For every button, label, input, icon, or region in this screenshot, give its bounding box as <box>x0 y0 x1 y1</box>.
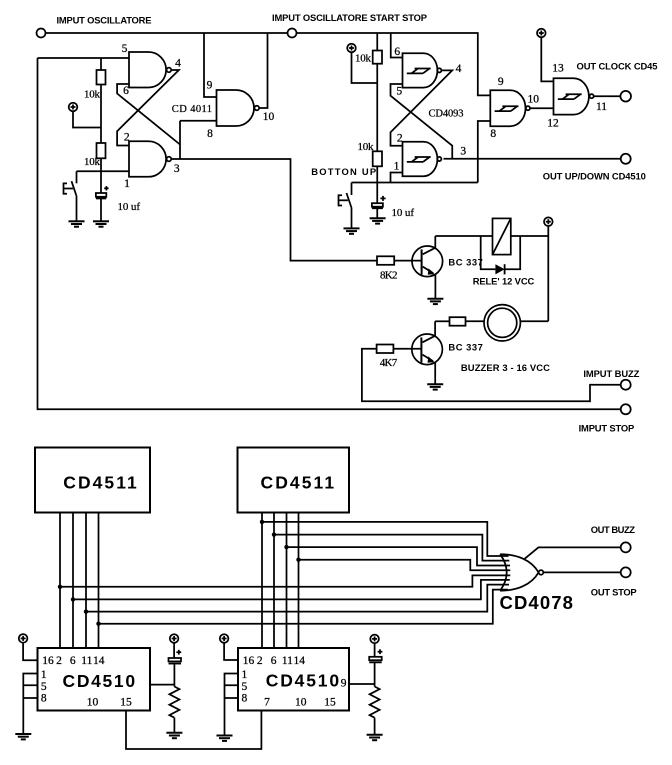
wire SW2 drop <box>351 183 353 196</box>
power +V P6 <box>170 634 179 643</box>
IC box U4 CD4511 <box>238 448 350 513</box>
diode D1 <box>495 264 504 274</box>
wire tap to OUT BUZZ <box>525 547 621 558</box>
svg-text:1: 1 <box>41 669 47 681</box>
wire P2 to RC node <box>352 52 378 83</box>
svg-text:13: 13 <box>552 62 564 74</box>
svg-text:5: 5 <box>396 86 402 98</box>
wire CD4093 RC vertical <box>376 33 378 203</box>
svg-text:10k: 10k <box>84 156 101 168</box>
svg-text:15: 15 <box>324 696 336 708</box>
wire U2A pin5 cross-coupling from U2B output <box>391 84 453 159</box>
svg-text:4: 4 <box>175 57 181 69</box>
wire U6 pins 1 5 8 to ground <box>23 674 37 735</box>
resistor R5 8K2 <box>377 256 394 265</box>
ground SW2 <box>344 228 360 233</box>
wire U4d to CD4078 input 4 <box>299 560 511 571</box>
junction U3c <box>84 609 88 613</box>
svg-text:3: 3 <box>174 163 180 175</box>
wire U3c to CD4078 input 7 <box>86 585 509 612</box>
terminal OUT STOP <box>621 567 631 577</box>
svg-text:OUT CLOCK CD45: OUT CLOCK CD45 <box>577 60 658 71</box>
IC box U7 CD4510 <box>238 648 349 711</box>
capacitor C3 <box>169 650 182 664</box>
svg-text:6: 6 <box>70 655 76 667</box>
ground U6 <box>15 734 31 739</box>
wire P9 to U7 pin 16 <box>224 643 238 660</box>
pushbutton SW2 <box>339 193 352 208</box>
wire U2B pin 1 bracket <box>391 173 403 183</box>
svg-text:IMPUT OSCILLATORE: IMPUT OSCILLATORE <box>57 15 152 26</box>
ground C2 <box>370 218 386 223</box>
wire buzzer to +V vertical <box>520 320 548 322</box>
capacitor C4 <box>369 649 382 662</box>
svg-text:CD4510: CD4510 <box>63 671 136 691</box>
svg-text:5: 5 <box>41 681 47 693</box>
IC box U6 CD4510 <box>38 648 151 711</box>
transistor Q1 BC337 <box>412 236 443 299</box>
resistor R1 10k <box>97 70 106 85</box>
svg-text:14: 14 <box>293 655 305 667</box>
power +V P7 <box>370 635 379 644</box>
wire U3 bus line d <box>98 513 100 649</box>
wire button SW1 to pin1 net <box>76 171 78 183</box>
svg-text:11: 11 <box>81 655 92 667</box>
svg-text:10: 10 <box>528 93 540 105</box>
svg-text:10 uf: 10 uf <box>392 207 415 219</box>
wire from top rail down to pin 9 of U1C <box>204 33 217 97</box>
wire U2B output to OUT UP/DOWN <box>444 158 621 160</box>
resistor R6 4K7 <box>377 345 394 354</box>
ground U7 <box>217 736 233 741</box>
wire relay left leg to diode D1 <box>481 236 496 269</box>
schmitt nand gate U2D CD4093 <box>554 78 594 114</box>
terminal IMPUT STOP <box>621 404 631 414</box>
svg-text:IMPUT BUZZ: IMPUT BUZZ <box>583 368 639 379</box>
power +V P8 <box>19 634 28 643</box>
junction U3d <box>96 622 100 626</box>
resistor R9 zigzag <box>370 687 380 718</box>
svg-text:CD4093: CD4093 <box>429 108 464 119</box>
svg-text:IMPUT OSCILLATORE START STOP: IMPUT OSCILLATORE START STOP <box>272 12 427 23</box>
wire R5 to Q1 base <box>394 260 421 262</box>
svg-text:12: 12 <box>547 118 559 130</box>
svg-text:IMPUT STOP: IMPUT STOP <box>579 422 635 433</box>
wire input oscillatore top rail <box>46 33 491 95</box>
schmitt nand gate U2C CD4093 <box>490 90 530 126</box>
wire SW2 to ground <box>351 208 353 229</box>
terminal OUT BUZZ <box>621 542 631 552</box>
svg-text:CD4078: CD4078 <box>499 592 573 613</box>
junction U4a <box>260 520 264 524</box>
svg-text:10: 10 <box>263 111 275 123</box>
svg-text:10k: 10k <box>358 141 375 153</box>
wire U4 bus line b <box>273 513 275 649</box>
wire P7 to C4 <box>374 643 376 656</box>
resistor R2 10k <box>97 143 106 158</box>
wire Q1 collector to +V node <box>435 235 548 237</box>
svg-text:11: 11 <box>282 655 293 667</box>
svg-text:OUT UP/DOWN CD4510: OUT UP/DOWN CD4510 <box>543 170 646 181</box>
svg-text:8: 8 <box>41 693 47 705</box>
wire U6 pin15 stub to RC node <box>150 684 174 686</box>
wire R7 to buzzer BZ1 <box>466 320 485 322</box>
ground R9 <box>367 735 383 740</box>
wire U2D output to OUT CLOCK <box>594 95 621 97</box>
terminal IMPUT OSCILLATORE <box>37 29 46 38</box>
relay RL1 coil <box>493 218 511 254</box>
junction U3b <box>71 597 75 601</box>
wire left rail to IMPUT STOP <box>38 58 621 409</box>
IC box U3 CD4511 <box>35 448 150 513</box>
svg-text:10k: 10k <box>355 53 372 65</box>
wire U3a to CD4078 input 5 <box>60 575 510 586</box>
svg-text:11: 11 <box>596 101 607 113</box>
wire P5 down to buzzer <box>547 226 549 321</box>
svg-text:8: 8 <box>242 693 248 705</box>
resistor R4 10k <box>373 151 382 166</box>
terminal OUT UP/DOWN CD4510 <box>621 154 631 164</box>
wire U5 output to OUT STOP <box>543 571 620 573</box>
wire U3 bus line b <box>72 513 74 649</box>
buzzer BZ1 <box>484 305 520 341</box>
svg-text:4: 4 <box>456 63 462 75</box>
svg-text:6: 6 <box>123 85 129 97</box>
wire U2C output to U2D pin 12 <box>530 107 553 109</box>
power +V P2 <box>347 44 356 53</box>
nor gate U5 CD4078 <box>500 554 543 591</box>
resistor R8 zigzag <box>169 687 179 718</box>
svg-text:BOTTON UP: BOTTON UP <box>311 166 376 177</box>
ground SW1 <box>69 221 85 226</box>
svg-text:16: 16 <box>243 655 255 667</box>
wire U3 bus line a <box>59 513 61 649</box>
wire U2A output to U2B pin 2 cross-coupling <box>391 70 453 145</box>
power +V P5 <box>544 217 553 226</box>
power +V P9 <box>220 634 229 643</box>
wire U4 bus line a <box>261 513 263 649</box>
terminal IMPUT OSCILLATORE START STOP <box>288 29 297 38</box>
svg-text:14: 14 <box>93 655 105 667</box>
svg-text:2: 2 <box>124 131 130 143</box>
svg-text:4K7: 4K7 <box>380 357 398 369</box>
wire R6 to Q2 base <box>393 348 421 350</box>
junction U4d <box>296 558 300 562</box>
svg-text:8: 8 <box>490 128 496 140</box>
wire U4c to CD4078 input 3 <box>287 547 511 565</box>
wire P8 to U6 pin 16 <box>23 643 37 660</box>
wire U1A output to U1B pin 2 cross-coupling <box>117 70 179 146</box>
svg-text:10: 10 <box>87 696 99 708</box>
svg-text:3: 3 <box>460 145 466 157</box>
ground C1 <box>93 221 109 226</box>
wire below C2 to ground <box>376 208 378 218</box>
power +V P1 <box>69 103 78 112</box>
ground Q2 emitter <box>427 384 443 389</box>
svg-text:10: 10 <box>295 696 307 708</box>
wire R9 to ground <box>374 718 376 735</box>
wire RC chain vertical <box>100 58 102 221</box>
wire U1C output pin 10 up to top rail <box>259 33 267 108</box>
nand gate U1C CD4011 <box>217 90 260 126</box>
junction U4b <box>272 532 276 536</box>
wire pin3 node up to pin 8 <box>179 121 181 159</box>
schmitt nand gate U2A CD4093 <box>403 53 442 87</box>
wire U4 bus line d <box>298 513 300 649</box>
svg-text:BC 337: BC 337 <box>448 342 482 353</box>
wire C4 to R9 node <box>374 662 376 686</box>
svg-text:7: 7 <box>264 696 270 708</box>
svg-text:CD 4011: CD 4011 <box>172 104 212 115</box>
wire U3 bus line c <box>85 513 87 649</box>
wire SW1 to ground <box>76 196 78 222</box>
wire top rail to U2A pin 6 <box>391 33 403 58</box>
wire P6 to C3 <box>173 643 175 658</box>
wire one-shot node W5 <box>352 182 478 184</box>
ground R8 <box>166 733 182 738</box>
wire U1A pin6 cross-coupling from U1B output <box>117 84 180 145</box>
junction U4c <box>284 545 288 549</box>
wire R8 to ground <box>173 718 175 733</box>
svg-text:2: 2 <box>56 655 62 667</box>
schmitt nand gate U2B CD4093 <box>403 142 442 176</box>
resistor R3 10k <box>373 51 382 64</box>
svg-text:BC 337: BC 337 <box>448 257 482 268</box>
svg-text:15: 15 <box>120 696 132 708</box>
wire U1B pin 1 input <box>77 170 130 172</box>
pushbutton SW1 <box>64 181 77 196</box>
junction U3a <box>58 585 62 589</box>
svg-text:5: 5 <box>122 43 128 55</box>
svg-text:9: 9 <box>498 76 504 88</box>
svg-text:6: 6 <box>271 655 277 667</box>
wire U1B output pin3 to 8K2 and down <box>171 159 377 261</box>
terminal IMPUT BUZZ <box>621 380 631 390</box>
wire P1 to RC node <box>73 111 101 127</box>
svg-text:16: 16 <box>42 655 54 667</box>
wire W5 up to U2C pin 8 <box>478 121 491 183</box>
wire Q2 base net to IMPUT BUZZ <box>362 349 621 402</box>
transistor Q2 BC337 <box>412 321 443 384</box>
svg-text:1: 1 <box>242 669 248 681</box>
svg-text:1: 1 <box>124 178 130 190</box>
svg-text:8K2: 8K2 <box>380 269 398 281</box>
svg-text:1: 1 <box>394 161 400 173</box>
svg-text:2: 2 <box>257 655 263 667</box>
svg-text:10 uf: 10 uf <box>118 201 141 213</box>
wire U4a to CD4078 input 1 <box>262 522 509 556</box>
svg-text:OUT STOP: OUT STOP <box>591 586 637 597</box>
svg-text:RELE' 12 VCC: RELE' 12 VCC <box>473 275 535 286</box>
power +V P4 <box>537 29 546 38</box>
capacitor C1 10uf <box>96 186 109 198</box>
svg-text:OUT BUZZ: OUT BUZZ <box>591 524 635 535</box>
wire U4 bus line c <box>286 513 288 649</box>
svg-text:9: 9 <box>207 80 213 92</box>
terminal OUT CLOCK <box>620 91 631 102</box>
svg-text:5: 5 <box>242 681 248 693</box>
wire to U1C pin 8 <box>180 120 217 122</box>
wire node A to U1A pin 5 <box>38 57 130 59</box>
wire U4b to CD4078 input 2 <box>274 535 509 561</box>
svg-text:9: 9 <box>341 677 347 689</box>
wire U3b to CD4078 input 6 <box>73 580 510 600</box>
wire Q2 collector to R7 <box>435 320 449 322</box>
wire U6 pin15 to U7 pin7 <box>126 711 261 750</box>
svg-text:10k: 10k <box>84 88 101 100</box>
svg-text:BUZZER 3 - 16 VCC: BUZZER 3 - 16 VCC <box>461 362 550 373</box>
wire U3d to CD4078 input 8 <box>99 590 509 624</box>
nand gate U1A CD4011 <box>129 52 171 88</box>
ground Q1 emitter <box>427 299 443 304</box>
resistor R7 <box>450 317 466 326</box>
wire C3 to R8 node <box>173 664 175 687</box>
wire diode D1 cathode to relay right leg <box>505 236 521 269</box>
svg-text:8: 8 <box>207 128 213 140</box>
nand gate U1B CD4011 <box>129 141 171 177</box>
capacitor C2 10uf <box>372 196 386 208</box>
svg-text:6: 6 <box>394 46 400 58</box>
svg-text:2: 2 <box>397 132 403 144</box>
wire U7 pins 1 5 8 to ground <box>225 674 239 736</box>
wire P4 to U2D pin 13 <box>541 37 553 81</box>
wire U7 pin9 stub to RC node <box>349 683 375 685</box>
